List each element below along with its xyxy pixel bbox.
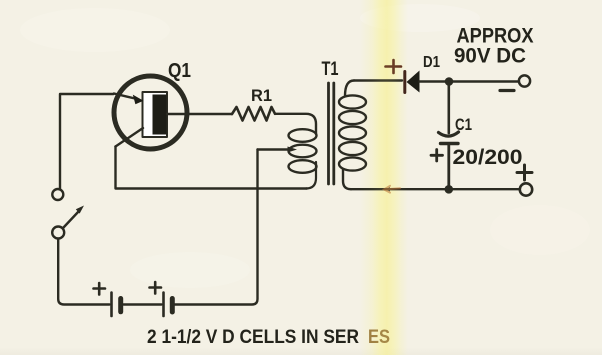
node: top output junction <box>445 77 454 86</box>
svg-text:90V DC: 90V DC <box>454 45 526 68</box>
transformer T1 core <box>327 83 330 184</box>
switch S1 top terminal <box>52 189 63 200</box>
highlighter band <box>360 0 408 355</box>
wire: switch to battery <box>58 239 109 305</box>
svg-text:2 1-1/2 V D CELLS IN SER: 2 1-1/2 V D CELLS IN SER <box>147 327 359 348</box>
annotation: red plus at secondary top <box>386 60 402 73</box>
battery cell 1 negative plate <box>118 299 123 312</box>
wire: collector of Q1 to primary bottom <box>116 147 308 189</box>
battery cell 2 negative plate <box>170 299 175 313</box>
wire: secondary top to diode D1 <box>354 79 402 81</box>
wire: diode to minus terminal <box>420 80 519 83</box>
plus sign at output <box>517 165 532 180</box>
highlighter band overlay tint <box>360 0 408 355</box>
capacitor C1 straight plate <box>441 142 459 145</box>
tap arrowhead <box>288 147 298 153</box>
capacitor C1 plus label <box>431 150 443 162</box>
switch S1 blade <box>64 211 80 228</box>
transistor Q1 base bar fill <box>153 95 167 135</box>
annotation: faint red mark on bottom rail <box>384 186 400 193</box>
resistor R1 zigzag <box>232 107 275 121</box>
battery cell 2 plus label <box>150 282 162 294</box>
wire: between battery cells <box>124 303 162 305</box>
battery cell 2 positive plate <box>162 293 165 317</box>
wire: C1 to bottom rail <box>447 144 450 190</box>
switch S1 bottom terminal <box>52 227 64 239</box>
battery cell 1 positive plate <box>110 293 113 317</box>
transistor Q1 emitter arrowhead <box>133 95 144 105</box>
diode D1 cathode bar <box>403 72 406 93</box>
wire: Q1 base to R1 <box>167 113 232 115</box>
wire: junction down to C1 <box>447 82 450 134</box>
diode D1 triangle <box>407 71 420 93</box>
svg-text:R1: R1 <box>251 86 272 105</box>
switch S1 blade arrowhead <box>76 206 84 214</box>
svg-text:Q1: Q1 <box>168 60 191 82</box>
transformer T1 secondary coil <box>345 81 354 97</box>
minus output terminal <box>519 75 530 86</box>
transformer T1 primary coil <box>289 129 317 142</box>
plus output terminal <box>520 183 532 195</box>
transistor Q1 collector line <box>116 128 144 147</box>
transistor Q1 emitter line <box>114 94 135 99</box>
wire: battery to transformer tap riser <box>175 150 258 305</box>
svg-text:D1: D1 <box>423 54 440 71</box>
svg-text:20/200: 20/200 <box>453 146 523 169</box>
svg-text:T1: T1 <box>322 59 339 80</box>
wire: secondary bottom rail to plus terminal <box>351 188 520 190</box>
capacitor C1 curved plate <box>439 132 459 136</box>
node: bottom output junction <box>445 185 454 194</box>
battery cell 1 plus label <box>94 283 106 295</box>
wire: R1 to primary top <box>275 114 316 134</box>
wire: emitter of Q1 to switch (top-left rail) <box>60 94 114 189</box>
transistor Q1 base bar outline <box>143 92 168 137</box>
wire: tap into primary <box>258 148 291 150</box>
minus sign <box>500 89 514 92</box>
svg-text:C1: C1 <box>455 115 472 134</box>
transistor Q1 body circle <box>114 76 187 149</box>
